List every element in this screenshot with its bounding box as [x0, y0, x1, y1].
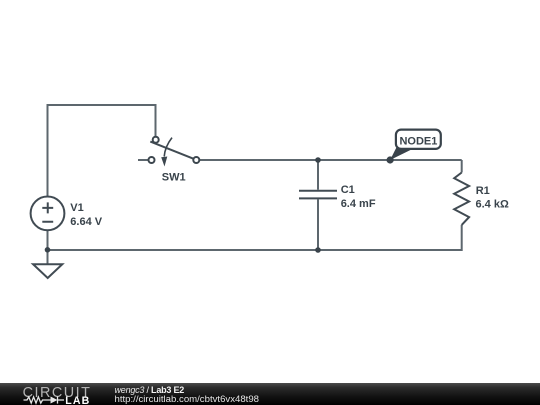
svg-text:LAB: LAB	[65, 395, 90, 405]
svg-text:SW1: SW1	[162, 171, 186, 183]
svg-text:V1: V1	[70, 202, 83, 214]
svg-text:6.4 mF: 6.4 mF	[341, 198, 376, 210]
svg-text:C1: C1	[341, 184, 355, 196]
svg-text:6.64 V: 6.64 V	[70, 216, 102, 228]
svg-text:R1: R1	[476, 185, 490, 197]
svg-text:6.4 kΩ: 6.4 kΩ	[476, 199, 509, 211]
svg-text:NODE1: NODE1	[399, 135, 437, 147]
